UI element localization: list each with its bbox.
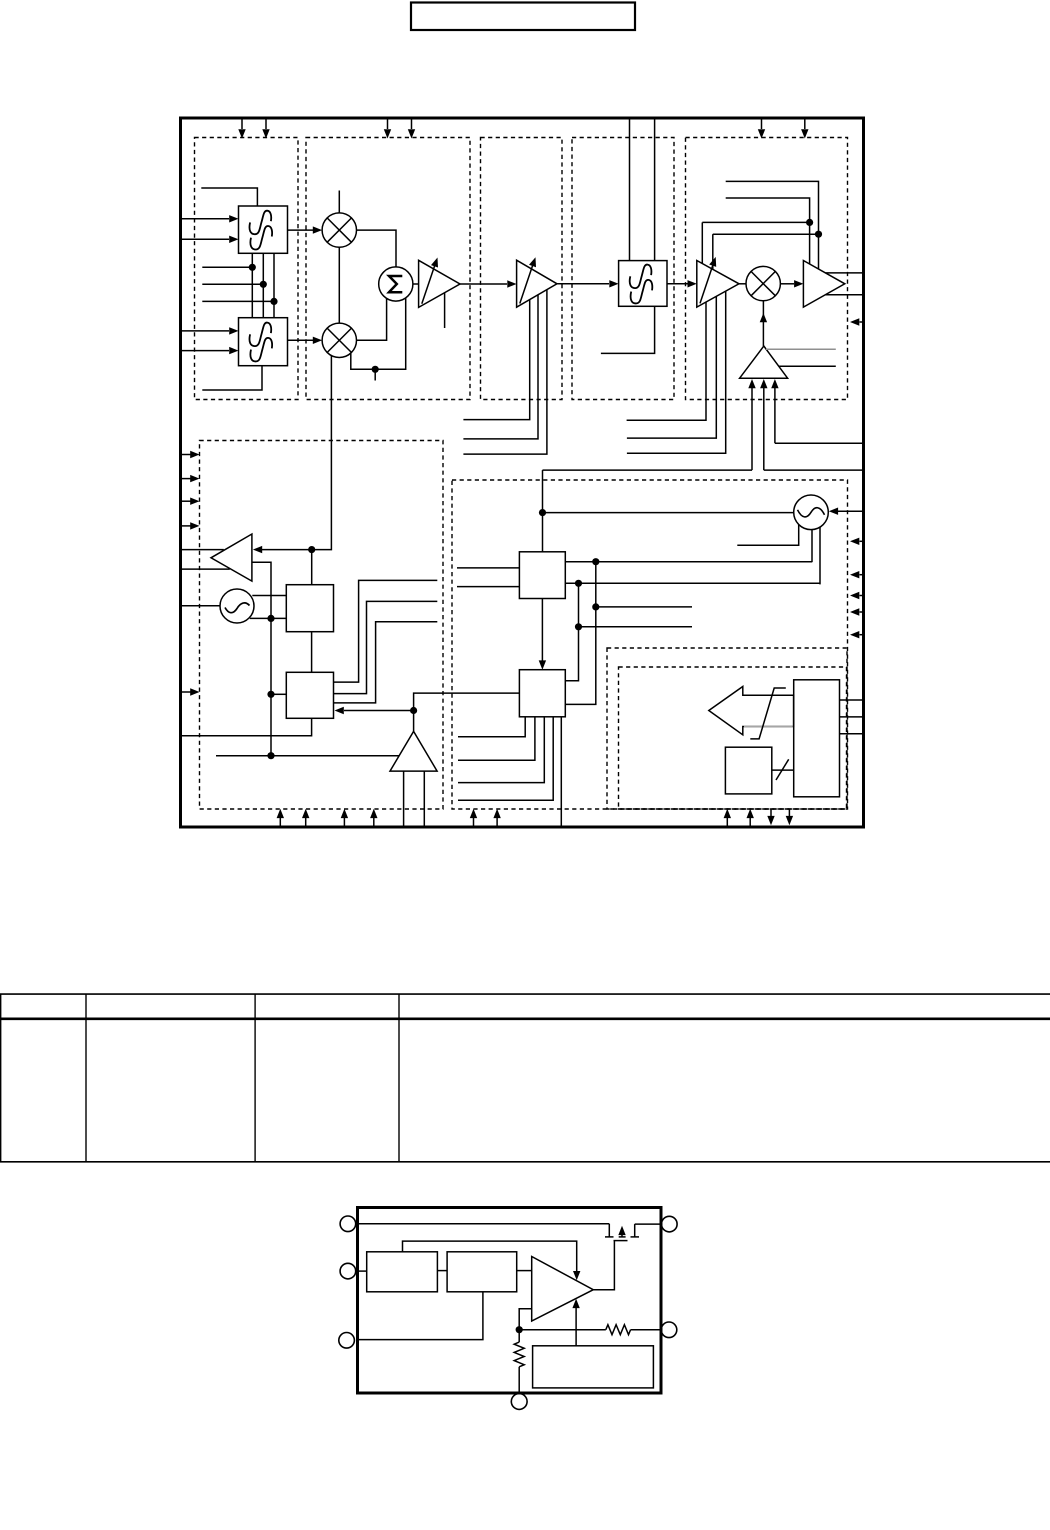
terminal ground bottom <box>511 1394 527 1410</box>
wire VCO to LO junction <box>543 512 794 514</box>
table column line 3 <box>398 994 400 1162</box>
LO junction vertical + dot <box>542 470 544 552</box>
wire M1 to summer <box>357 230 397 267</box>
table left border <box>0 994 2 1162</box>
terminal input left <box>340 1263 356 1279</box>
table header separator <box>0 1017 1050 1020</box>
oscillator OSC2 (RX LO) <box>220 589 254 623</box>
reference block R2 <box>447 1252 517 1292</box>
chip outer boundary <box>181 118 864 827</box>
sense block S1 <box>533 1346 654 1388</box>
crystal pin wire 2 <box>423 771 425 826</box>
arrow B1 to B2 <box>541 599 543 661</box>
table column line 1 <box>85 994 87 1162</box>
TX filter section (dashed) <box>572 138 674 400</box>
wire B3 to B4 <box>311 632 313 673</box>
baseband filter F2 <box>239 318 288 366</box>
PA gain control wire 2 <box>627 296 716 438</box>
B4 right wire 1 <box>334 580 438 682</box>
LO buffer triangle <box>740 346 788 378</box>
top pin arrow into PA section <box>761 120 763 130</box>
tap stub wire 2 <box>579 626 693 628</box>
PLL block B2 <box>519 670 565 717</box>
tap wire c + junction <box>202 300 274 302</box>
terminal output right <box>661 1322 677 1338</box>
tap wire b + junction <box>202 283 263 285</box>
bus width slash small <box>776 759 789 780</box>
register output pin 3 <box>840 733 863 735</box>
title box <box>411 3 635 31</box>
right pin arrow into synthesizer section <box>860 634 863 636</box>
RX block B4 <box>286 672 333 718</box>
wire R2 bottom to enable terminal <box>358 1292 483 1340</box>
VGA1 gain control stub <box>444 293 446 328</box>
bottom pin arrow into RX/LO section <box>373 818 375 827</box>
wire junction to Rg <box>518 1330 520 1342</box>
crystal amp left-slope wire + junction <box>216 755 399 757</box>
left pin arrow into RX/LO section <box>182 525 191 527</box>
LO wire M1 to M2 <box>338 247 340 323</box>
block interconnect wire <box>437 1270 447 1272</box>
RX block B3 <box>286 585 333 632</box>
table column line 2 <box>254 994 256 1162</box>
interface register block <box>794 680 840 797</box>
arrow driver to TX filter <box>557 283 609 285</box>
top pin arrow into baseband section <box>241 120 243 130</box>
terminal enable left <box>339 1333 355 1349</box>
arrow F3 to PA <box>667 283 688 285</box>
top pin arrow into modulator section <box>387 120 389 130</box>
bottom pin arrow into synthesizer section <box>496 818 498 827</box>
TX filter pin line 2 <box>654 120 656 261</box>
reference block R1 <box>367 1252 438 1292</box>
wire OSC2 to B3 upper <box>252 595 286 597</box>
tap vertical 1 to B2 + junction <box>565 562 596 705</box>
LO injection arrow into M3 <box>762 301 764 346</box>
LO feed arrow a <box>751 388 753 470</box>
F3 bottom stub wire <box>601 306 655 353</box>
B1 input wire 1 <box>457 567 519 569</box>
bottom pin arrow into RX/LO section <box>305 818 307 827</box>
driver gain control wire 1 <box>463 300 529 420</box>
bottom pin arrow down from digital section <box>770 809 772 816</box>
oscillator OSC1 (VCO) <box>794 495 829 530</box>
OSC2 left pin wire <box>182 605 220 607</box>
arrow F1 to mixer M1 <box>288 229 314 231</box>
interface small block <box>725 747 771 794</box>
wire summer to VGA1 <box>413 283 419 285</box>
left pin arrow into RX/LO section <box>182 478 191 480</box>
RF output line + <box>826 272 863 274</box>
wire R2 to op-amp <box>517 1270 532 1272</box>
RX buffer output line 2 <box>182 568 230 570</box>
wire bus to B4 left <box>271 693 286 695</box>
bias tap b + junction <box>713 233 819 235</box>
mixer M1 <box>322 213 356 247</box>
B4 right wire 2 <box>334 601 438 693</box>
RX output buffer triangle <box>211 534 252 581</box>
LO buffer side line 1 <box>766 348 836 350</box>
baseband filter F1 <box>239 206 288 253</box>
sense feedback arrow into op-amp <box>575 1308 577 1346</box>
top pin arrow into baseband section <box>265 120 267 130</box>
wire from F2 bottom <box>202 366 262 390</box>
baseband filter section (dashed) <box>195 138 299 400</box>
input terminal wire <box>356 1270 367 1272</box>
arrow crystal amp to RX block B4 <box>344 710 414 712</box>
LO wire from M2 with arrow into RX buffer + junction <box>262 356 331 550</box>
LO feed arrow c <box>774 388 776 443</box>
tap wire a + junction <box>202 266 252 268</box>
left pin arrow into RX/LO section <box>182 500 191 502</box>
crystal amp triangle <box>390 731 437 771</box>
B1 input wire 2 <box>457 586 519 588</box>
register output pin 2 <box>840 716 863 718</box>
divider resistor Rg <box>514 1342 524 1367</box>
B2 serial pin wire <box>560 717 562 827</box>
pass MOSFET Q1 <box>605 1224 639 1241</box>
B2 bottom wire 4 <box>458 717 553 801</box>
right pin arrow into PA section <box>860 321 863 323</box>
digital interface inner section (dashed) <box>619 667 847 809</box>
wire small block to register <box>772 769 794 771</box>
bottom pin arrow into synthesizer section <box>473 818 475 827</box>
top pin arrow into modulator section <box>411 120 413 130</box>
data bus block arrow <box>709 687 794 735</box>
right pin arrow into synthesizer section <box>860 574 863 576</box>
table bottom border <box>0 1161 1050 1163</box>
driver amp section (dashed) <box>481 138 563 400</box>
summer (sigma) <box>379 267 413 301</box>
left pin arrow into RX/LO section <box>182 454 191 456</box>
VGA1 (variable gain amp) <box>419 260 460 307</box>
RX buffer output line 1 <box>182 549 224 551</box>
bus width slash big <box>750 688 786 739</box>
mixer M2 <box>322 323 356 357</box>
table top border <box>0 993 1050 995</box>
RF output line - <box>825 294 862 296</box>
B4 bottom wire to left pin <box>182 718 312 736</box>
PA output section (dashed) <box>686 138 848 400</box>
wire OSC2 to B3 lower + junction <box>250 617 286 619</box>
B1 output wire 1 + junction <box>565 561 812 563</box>
LO feed arrow b <box>763 388 765 470</box>
PLL block B1 <box>519 552 565 599</box>
top rail wire left <box>356 1223 609 1225</box>
B2 bottom wire 1 <box>458 717 525 737</box>
wire R1 top to op-amp noninverting input (arrow) <box>403 1241 577 1271</box>
LO feed wire B <box>764 469 863 471</box>
RX / LO section (dashed) <box>200 441 444 810</box>
modulator section (dashed) <box>306 138 470 400</box>
wire M2 to summer (lower) + junction + stub <box>351 298 406 369</box>
wire Rf to output terminal <box>631 1329 662 1331</box>
input arrow to F2 (Q-) <box>182 350 229 352</box>
driver gain control wire 3 <box>463 290 547 454</box>
left pin arrow into RX/LO section <box>182 691 191 693</box>
LO buffer side line 2 <box>779 365 836 367</box>
right pin arrow into synthesizer section <box>860 611 863 613</box>
app circuit boundary <box>358 1208 662 1394</box>
wire Rg to ground terminal <box>518 1367 520 1394</box>
wire into filter F1 top <box>201 188 257 206</box>
driver gain control wire 2 <box>463 295 538 439</box>
TX filter F3 <box>619 261 667 307</box>
B2 bottom wire 3 <box>458 717 544 783</box>
feedback resistor Rf <box>606 1325 631 1335</box>
VCO bottom wire 2 <box>811 530 813 563</box>
bottom pin arrow up into digital section <box>749 818 751 827</box>
digital interface outer section (dashed) <box>607 648 847 809</box>
mixer M3 <box>746 266 780 300</box>
LO feed wire C <box>775 442 863 444</box>
vertical wire F1-F2 b <box>262 253 264 317</box>
crystal pin wire 1 <box>403 771 405 826</box>
bottom pin arrow up into digital section <box>726 818 728 827</box>
LO feed wire A <box>543 469 753 471</box>
arrow VGA1 to driver <box>460 283 507 285</box>
PA gain control wire 1 <box>627 302 706 420</box>
TX filter pin line 1 <box>629 120 631 261</box>
driver amp (variable) <box>517 260 557 307</box>
tap stub wire 1 <box>596 606 692 608</box>
M1 LO stub <box>338 191 340 213</box>
bottom pin arrow into RX/LO section <box>279 818 281 827</box>
synthesizer section (dashed) <box>452 480 848 809</box>
bias tap a + junction <box>702 221 809 223</box>
B1 output wire 2 + junction <box>565 582 820 584</box>
vertical wire F1-F2 c <box>273 253 275 317</box>
tap wire to RX block B3 <box>311 550 313 585</box>
arrow F2 to mixer M2 <box>288 339 314 341</box>
input arrow to F2 (Q+) <box>182 330 229 332</box>
terminal VDD left <box>340 1216 356 1232</box>
vertical LO bus wire + junction <box>270 618 272 755</box>
B4 right wire 3 <box>334 622 438 703</box>
top rail wire right <box>635 1223 662 1225</box>
bias rail 1 <box>726 181 819 269</box>
vertical wire F1-F2 a <box>251 253 253 317</box>
crystal amp output wire to B2 + junction <box>414 693 520 731</box>
terminal drain right <box>662 1216 678 1232</box>
input arrow to F1 (I+) <box>182 218 229 220</box>
output amp <box>803 261 844 308</box>
feedback wire to resistor <box>519 1329 606 1331</box>
inverting input wire <box>519 1309 532 1330</box>
wire M2 to summer (upper) <box>357 299 387 341</box>
top pin arrow into PA section <box>804 120 806 130</box>
PA top feed a <box>701 222 703 263</box>
VCO bottom wire 3 <box>819 527 821 584</box>
arrow M3 to output amp <box>780 283 794 285</box>
bottom pin arrow down from digital section <box>788 809 790 816</box>
PA (variable gain) <box>697 261 739 308</box>
tap vertical 2 to B2 + junction <box>565 583 578 681</box>
PA gain control wire 3 <box>627 291 726 453</box>
input arrow to F1 (I-) <box>182 238 229 240</box>
bottom pin arrow into RX/LO section <box>343 818 345 827</box>
B2 bottom wire 2 <box>458 717 535 761</box>
feedback junction <box>516 1326 523 1333</box>
right pin arrow into VCO <box>838 510 863 512</box>
right pin arrow into synthesizer section <box>860 540 863 542</box>
bias rail 2 <box>726 198 810 264</box>
PA top feed b <box>712 234 714 269</box>
wire PA to mixer M3 <box>739 283 746 285</box>
gate wire from op-amp output <box>593 1241 614 1290</box>
register output pin 1 <box>840 699 863 701</box>
op-amp U1 <box>532 1257 594 1322</box>
VCO bottom wire 1 <box>737 525 798 546</box>
right pin arrow into synthesizer section <box>860 595 863 597</box>
RX buffer base wire <box>252 562 271 618</box>
